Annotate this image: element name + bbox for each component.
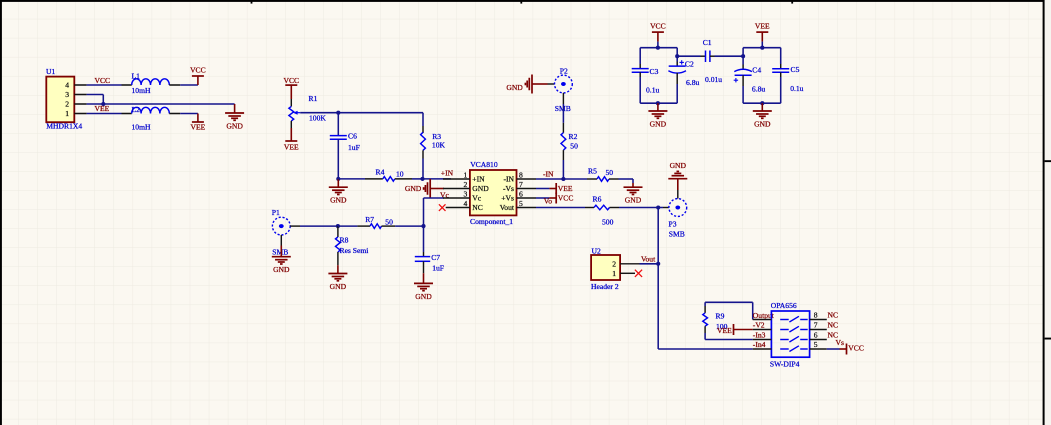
wire C3 to bottom rail: [639, 77, 641, 103]
svg-text:U1: U1: [46, 67, 55, 76]
wire R1 wiper to R3: [300, 112, 423, 114]
junction pin3/pin2: [101, 102, 105, 106]
svg-text:R9: R9: [716, 311, 725, 320]
svg-text:R2: R2: [569, 132, 578, 141]
wire Vc from R7 node to pin3: [423, 198, 425, 226]
power port VEE (pin7): [536, 183, 573, 194]
svg-text:+IN: +IN: [441, 169, 454, 178]
svg-text:Vout: Vout: [641, 254, 656, 263]
svg-text:1: 1: [464, 171, 468, 180]
svg-text:P1: P1: [272, 208, 280, 217]
wire Vout to switch: [658, 348, 753, 350]
svg-text:VEE: VEE: [717, 326, 732, 335]
resistor R3 10K: [421, 113, 446, 179]
svg-text:6: 6: [814, 330, 818, 339]
svg-text:10mH: 10mH: [132, 86, 152, 95]
ground GND (VCC caps): [648, 103, 667, 128]
svg-text:NC: NC: [472, 203, 483, 212]
no-connect X on pin4: [439, 204, 446, 211]
wire R4 to +IN node: [412, 178, 423, 180]
junction C1 tap right: [741, 54, 745, 58]
power port VEE (R1): [284, 128, 299, 151]
wire gnd node to R4: [338, 178, 365, 180]
inductor L2 10mH: [122, 105, 181, 131]
svg-text:1: 1: [65, 109, 69, 118]
capacitor C1 0.01u: [677, 38, 722, 84]
resistor R4 10: [365, 168, 412, 182]
svg-text:MHDR1X4: MHDR1X4: [46, 122, 82, 131]
svg-text:C3: C3: [650, 67, 659, 76]
svg-text:Vs: Vs: [836, 338, 844, 347]
svg-text:Res Semi: Res Semi: [340, 246, 369, 255]
wire to C6: [337, 113, 339, 136]
wire R8 node to R7: [338, 225, 358, 227]
svg-text:1uF: 1uF: [348, 143, 360, 152]
svg-text:R8: R8: [340, 236, 349, 245]
capacitor C5 0.1u: [772, 64, 803, 93]
svg-text:100K: 100K: [309, 113, 326, 122]
svg-text:SMB: SMB: [669, 230, 685, 239]
svg-text:50: 50: [606, 168, 614, 177]
wire rail to C5: [780, 48, 782, 64]
svg-text:500: 500: [602, 218, 614, 227]
svg-text:VCC: VCC: [558, 194, 574, 203]
junction C7/Vc node: [421, 224, 425, 228]
svg-text:3: 3: [65, 90, 69, 99]
wire VCC bottom rail: [640, 102, 677, 104]
svg-text:-In3: -In3: [753, 330, 766, 339]
svg-text:+IN: +IN: [472, 174, 485, 183]
svg-text:VCC: VCC: [650, 21, 666, 30]
connector U1 MHDR1X4: [46, 67, 82, 131]
svg-text:-IN: -IN: [543, 170, 554, 179]
svg-text:-V2: -V2: [753, 321, 765, 330]
svg-text:5: 5: [814, 340, 818, 349]
svg-text:7: 7: [814, 320, 818, 329]
svg-text:7: 7: [519, 180, 523, 189]
junction VCC bottom rail: [656, 101, 660, 105]
wire pin8 to -IN node: [536, 178, 563, 180]
svg-text:3: 3: [464, 190, 468, 199]
wire P1 to R8 node: [300, 225, 338, 227]
wire L1 to VCC port: [180, 84, 198, 86]
junction +IN node: [420, 177, 424, 181]
wire R2 to -IN node: [562, 160, 564, 179]
wire C5 to bottom rail: [780, 77, 782, 103]
svg-text:50: 50: [385, 218, 393, 227]
svg-text:-Vs: -Vs: [503, 184, 514, 193]
svg-text:10K: 10K: [432, 141, 446, 150]
wire P2 to R2: [562, 104, 564, 123]
wire node to P3: [658, 207, 663, 209]
junction VEE rail: [760, 46, 764, 50]
wire C4 to bottom rail: [742, 86, 744, 103]
svg-text:C2: C2: [685, 59, 694, 68]
power port VEE (switch): [717, 324, 753, 335]
inductor L1 10mH: [122, 72, 181, 95]
ground GND (R8): [328, 265, 347, 291]
connector U2 Header 2: [591, 247, 640, 292]
svg-text:Vout: Vout: [500, 203, 515, 212]
svg-text:OPA656: OPA656: [771, 301, 797, 310]
resistor R9 100: [703, 302, 753, 339]
wire C6 to gnd node: [337, 139, 339, 179]
wire L2 to VEE port: [180, 113, 198, 115]
no-connect X on U2 pin1: [635, 270, 642, 277]
svg-text:P2: P2: [560, 67, 568, 76]
wire node to C7: [423, 226, 425, 252]
svg-text:VEE: VEE: [558, 184, 573, 193]
svg-text:VEE: VEE: [755, 21, 770, 30]
wire VEE top rail: [743, 47, 781, 49]
wire rail to C3: [639, 48, 641, 64]
svg-text:4: 4: [464, 199, 468, 208]
svg-text:GND: GND: [670, 161, 687, 170]
wire rail to C2: [676, 48, 678, 57]
svg-text:0.1u: 0.1u: [646, 85, 659, 94]
svg-text:L2: L2: [132, 105, 141, 114]
svg-text:2: 2: [65, 100, 69, 109]
junction C1 tap left: [675, 54, 679, 58]
svg-text:R1: R1: [309, 94, 318, 103]
svg-text:10: 10: [396, 170, 404, 179]
svg-text:GND: GND: [506, 83, 523, 92]
svg-text:VEE: VEE: [191, 123, 206, 132]
ground GND (U1 pin2): [225, 104, 244, 131]
power port VCC (caps): [650, 21, 666, 41]
ground GND (P3) flipped: [668, 161, 687, 190]
capacitor C3 0.1u: [632, 64, 660, 94]
svg-text:NC: NC: [828, 320, 839, 329]
ground GND (VEE caps): [753, 103, 772, 128]
potentiometer R1 100K: [289, 94, 326, 128]
resistor R5 50: [587, 167, 619, 182]
svg-text:C7: C7: [431, 253, 440, 262]
wire rail to C4: [742, 48, 744, 57]
svg-text:6.8u: 6.8u: [752, 84, 765, 93]
wire pin3 down to pin2 net: [87, 94, 104, 96]
ground GND (VCA810 pin2): [405, 179, 444, 198]
wire pin5 to R6: [536, 207, 585, 209]
wire U2 pin2 to Vout node: [640, 263, 659, 265]
svg-text:8: 8: [814, 310, 818, 319]
svg-text:Header 2: Header 2: [591, 282, 619, 291]
svg-text:GND: GND: [330, 282, 347, 291]
svg-text:1: 1: [612, 269, 616, 278]
wire VCC to rail: [657, 42, 659, 48]
resistor R6 500: [585, 195, 619, 227]
svg-text:R5: R5: [588, 167, 597, 176]
wire R6 to P3 node: [619, 207, 658, 209]
svg-text:+Vs: +Vs: [501, 193, 514, 202]
power port VCC (pin6): [536, 193, 573, 204]
svg-text:6.8u: 6.8u: [686, 78, 699, 87]
wire Vout vertical: [657, 208, 659, 350]
wire VEE to rail: [761, 42, 763, 48]
U1 pin 2 stub: [74, 103, 86, 105]
svg-text:5: 5: [519, 199, 523, 208]
svg-text:C1: C1: [703, 38, 712, 47]
wire VEE bottom rail: [743, 102, 781, 104]
svg-text:0.01u: 0.01u: [705, 75, 722, 84]
junction -IN node: [561, 177, 565, 181]
svg-text:P3: P3: [669, 219, 677, 228]
svg-text:1uF: 1uF: [432, 263, 444, 272]
connector P2 SMB: [548, 67, 573, 114]
connector P3 SMB: [663, 190, 687, 239]
ground GND (P1): [272, 246, 291, 275]
svg-text:GND: GND: [754, 120, 771, 129]
svg-text:2: 2: [464, 180, 468, 189]
svg-text:Component_1: Component_1: [470, 217, 513, 226]
svg-text:GND: GND: [330, 196, 347, 205]
svg-text:-In4: -In4: [753, 340, 766, 349]
power port VCC (U1): [190, 66, 206, 85]
junction VCC rail: [656, 46, 660, 50]
svg-text:VCC: VCC: [848, 344, 864, 353]
svg-text:C6: C6: [348, 132, 357, 141]
ground GND (R5): [624, 183, 643, 205]
svg-text:6: 6: [519, 190, 523, 199]
wire +IN node to pin1: [423, 178, 451, 180]
junction VEE bottom rail: [760, 101, 764, 105]
svg-text:GND: GND: [273, 265, 290, 274]
ground GND (C6): [329, 179, 348, 205]
svg-text:NC: NC: [828, 310, 839, 319]
svg-text:-IN: -IN: [503, 174, 514, 183]
power port VCC (switch): [840, 344, 864, 355]
svg-text:4: 4: [65, 81, 69, 90]
svg-text:R7: R7: [365, 215, 374, 224]
resistor R2 50: [561, 123, 578, 160]
svg-text:C5: C5: [791, 65, 800, 74]
power port VCC (R1): [283, 76, 299, 99]
capacitor C6 1uF: [330, 132, 360, 153]
wire VCC top rail: [640, 47, 677, 49]
wire R7 to C7 node: [395, 225, 423, 227]
svg-text:8: 8: [519, 171, 523, 180]
U1 pin 3 stub: [74, 94, 86, 96]
svg-text:VEE: VEE: [284, 142, 299, 151]
svg-text:GND: GND: [226, 122, 243, 131]
junction Vout node: [656, 262, 660, 266]
svg-text:50: 50: [570, 142, 578, 151]
svg-text:VCA810: VCA810: [470, 160, 498, 169]
svg-text:GND: GND: [415, 292, 432, 301]
resistor R7 50: [357, 215, 395, 228]
svg-text:SW-DIP4: SW-DIP4: [770, 359, 800, 368]
svg-text:VCC: VCC: [190, 66, 206, 75]
junction C6 tap: [336, 111, 340, 115]
svg-text:0.1u: 0.1u: [790, 84, 803, 93]
wire C1 to right group: [715, 55, 744, 57]
power port VEE (caps): [755, 21, 770, 41]
wire C2 to bottom rail: [676, 84, 678, 103]
ground GND (C7): [414, 273, 433, 301]
svg-text:SMB: SMB: [272, 247, 288, 256]
op-amp U_VCA810 Component_1: [443, 160, 536, 226]
wire pin5 to VCC: [827, 348, 840, 350]
wire pin1 to L2: [87, 113, 122, 115]
svg-text:2: 2: [612, 259, 616, 268]
svg-text:GND: GND: [625, 196, 642, 205]
svg-text:GND: GND: [472, 184, 489, 193]
wire pin4 to L1: [87, 84, 122, 86]
resistor R8 Res Semi: [336, 226, 369, 265]
svg-text:VCC: VCC: [95, 76, 111, 85]
wire -IN node to R5: [563, 178, 587, 180]
wire to C2: [676, 56, 678, 61]
svg-text:GND: GND: [650, 120, 667, 129]
U1 pin 1 stub: [74, 113, 86, 115]
wire pin2 to GND: [87, 103, 235, 105]
svg-text:10mH: 10mH: [132, 122, 152, 131]
wire to C4: [742, 56, 744, 64]
ground GND (P2): [506, 75, 547, 94]
capacitor C7 1uF: [415, 252, 444, 273]
junction P3/Vout node: [656, 205, 660, 209]
svg-text:C4: C4: [752, 66, 761, 75]
connector P1 SMB: [272, 208, 300, 256]
switch U3 OPA656 SW-DIP4: [753, 301, 827, 368]
svg-text:R4: R4: [376, 168, 385, 177]
capacitor C4 6.8u polarized: [734, 65, 766, 94]
U1 pin 4 stub: [74, 84, 86, 86]
power port VEE (U1): [191, 114, 206, 132]
svg-text:Vc: Vc: [472, 193, 481, 202]
svg-text:R6: R6: [593, 195, 602, 204]
junction R8 tap: [336, 224, 340, 228]
svg-text:VEE: VEE: [95, 104, 110, 113]
junction C6/R4/GND: [336, 177, 340, 181]
capacitor C2 6.8u polarized: [668, 59, 699, 87]
svg-text:GND: GND: [405, 184, 422, 193]
svg-text:VCC: VCC: [283, 76, 299, 85]
svg-text:Vo: Vo: [544, 197, 553, 206]
wire R5 to GND: [619, 178, 634, 180]
svg-text:L1: L1: [132, 72, 141, 81]
